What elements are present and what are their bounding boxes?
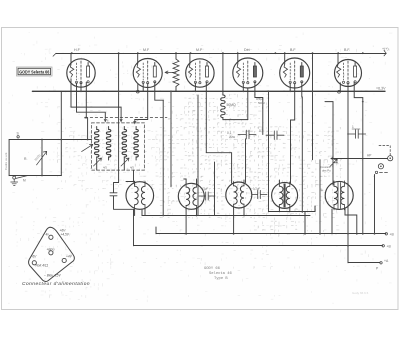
svg-text:0,5: 0,5	[259, 129, 264, 133]
wire: TR4 tops	[279, 180, 289, 183]
tube V5 pin 3	[301, 81, 303, 83]
dashed jack link	[379, 146, 390, 156]
svg-text:500V: 500V	[258, 101, 265, 105]
tube V4 pin 3	[254, 81, 256, 83]
terminal -B	[382, 245, 384, 247]
svg-text:HP: HP	[367, 154, 371, 158]
wire: V6 plate step right	[354, 82, 363, 234]
wire: long vertical x=198	[197, 95, 199, 216]
svg-text:4/5: 4/5	[130, 166, 134, 170]
connector pin 2	[49, 251, 53, 255]
svg-text:4µ: 4µ	[320, 188, 324, 192]
vacuum tube V5 envelope	[280, 58, 310, 88]
svg-text:M.F: M.F	[143, 48, 150, 52]
connector pin 4	[32, 261, 36, 265]
connector labels	[31, 229, 73, 278]
svg-text:H.F: H.F	[74, 48, 81, 52]
node: bus junction x=222.9	[222, 52, 224, 54]
wire: TR5 bottom center	[345, 209, 357, 234]
wire: V3 pin to chassis	[194, 83, 196, 92]
tube V3 grid lead from bus	[189, 53, 191, 64]
wire: V1 pin to AVC step	[77, 83, 106, 119]
svg-text:B.F.: B.F.	[344, 48, 350, 52]
tube V2 pin 3	[154, 81, 156, 83]
wire: pot leg vertical	[41, 140, 43, 176]
node: bus junction x=338.2	[337, 52, 339, 54]
svg-text:+4V: +4V	[66, 255, 73, 259]
wire: long vertical x=171	[170, 91, 172, 187]
tube V1 heater dashed line	[76, 63, 78, 80]
svg-text:Noir 4/11: Noir 4/11	[36, 263, 49, 267]
wire: V6 pin to chassis junction	[339, 83, 341, 92]
IF transformer TR2 can	[178, 183, 204, 209]
tube V1 plate top lead	[87, 63, 89, 67]
svg-text:R.: R.	[24, 157, 27, 161]
wire: V2 cathode down to coil box	[135, 84, 148, 122]
TR2 secondary winding	[193, 187, 197, 205]
wire: vertical x=268.5	[268, 91, 270, 212]
svg-text:Gody 66 6 6: Gody 66 6 6	[352, 291, 369, 295]
TR5 secondary winding	[341, 186, 345, 204]
tube V2 grid zigzag	[136, 64, 140, 77]
jack J2	[378, 164, 383, 169]
tube V2 pin 2	[147, 82, 149, 84]
wire: TR2 tops	[184, 179, 197, 184]
wire: TR2 bottoms	[186, 209, 196, 234]
wire: V4 pin to chassis	[242, 83, 244, 92]
wire: TR3 bottoms	[234, 208, 244, 234]
node: bus junction x=137.8	[137, 52, 139, 54]
vacuum tube V2 envelope	[133, 59, 162, 88]
wire: vertical x=320	[319, 160, 321, 234]
resistor R1 (AVC, between bus and chassis)	[175, 53, 177, 59]
tube V5 grid lead from bus	[284, 53, 286, 64]
wire: long vertical x=118.6 bus to padder	[118, 53, 120, 182]
capacitor C1 0,1µF	[238, 130, 256, 139]
tube V4 pin 2	[247, 82, 249, 84]
tube V1 grid zigzag	[70, 64, 74, 77]
tube V6 pin 2	[347, 82, 349, 84]
vacuum tube V6 envelope	[335, 60, 362, 87]
tube V5 anode plate	[300, 66, 303, 77]
node: bus left end tick	[53, 53, 56, 56]
TR1 primary leads	[134, 181, 136, 210]
svg-text:Cadre ou ant.: Cadre ou ant.	[4, 152, 8, 170]
tube V2 cathode dashed line	[147, 61, 149, 82]
svg-text:4/5: 4/5	[103, 166, 107, 170]
svg-text:Connecteur d'alimentation: Connecteur d'alimentation	[22, 281, 90, 287]
tube V4 pin 1	[242, 81, 244, 83]
tube V6 cathode dashed line	[347, 61, 349, 82]
svg-text:+4,5V: +4,5V	[61, 233, 70, 237]
svg-text:M.F: M.F	[196, 48, 203, 52]
TR1 secondary winding	[141, 186, 145, 204]
node: coil terminal arrow 3	[120, 119, 123, 122]
svg-text:GODY 66: GODY 66	[204, 267, 221, 271]
tube V5 pin 1	[289, 81, 291, 83]
node: bus junction x=284.7	[284, 52, 286, 54]
TR2 primary winding	[186, 187, 190, 205]
tube V5 plate top lead	[301, 63, 303, 67]
IF transformer TR5 can	[325, 181, 353, 209]
wire: P line	[348, 262, 380, 264]
wire: long vertical x=61	[60, 91, 62, 175]
svg-text:1: 1	[352, 125, 354, 129]
resistor R1 wiper arrow to V2 plate	[165, 71, 176, 74]
svg-text:+A: +A	[384, 259, 389, 263]
wire: rail y=215.5	[142, 215, 310, 217]
TR5 core lines	[338, 183, 341, 209]
svg-text:M: M	[23, 179, 26, 183]
wire: V3 plate down-step to IF2	[206, 82, 231, 183]
tube V2 anode plate	[153, 66, 156, 77]
tube V4 anode plate	[253, 66, 256, 77]
wire: TR2 area vertical	[214, 162, 216, 216]
vacuum tube V1 envelope	[67, 59, 95, 87]
tube V6 grid lead from bus	[337, 53, 339, 64]
IF transformer TR1 can	[126, 182, 154, 210]
tube V2 pin 1	[142, 81, 144, 83]
TR5 secondary leads	[343, 181, 345, 210]
svg-text:P: P	[137, 119, 139, 123]
wire: tube6 left step	[325, 102, 333, 185]
svg-text:4/2µF: 4/2µF	[201, 187, 208, 191]
tube V3 pin 3	[206, 81, 208, 83]
tube V1 pin 1	[75, 81, 77, 83]
TR5 primary leads	[333, 181, 335, 210]
svg-text:des Pu: des Pu	[322, 169, 331, 173]
node: coil terminal arrow	[104, 119, 107, 122]
wire: left down leg	[8, 140, 10, 176]
wire: osc coil to mixer	[133, 170, 135, 181]
tube V6 heater dashed line	[343, 63, 345, 80]
wire: antenna line	[9, 139, 91, 141]
wire: V6 cathode long down	[347, 84, 349, 263]
connector pin 1	[49, 235, 53, 239]
tube V3 pin 1	[194, 81, 196, 83]
capacitor C6	[199, 192, 215, 200]
tube V5 cathode dashed line	[294, 61, 296, 82]
wire: TR1 top	[126, 182, 135, 186]
node: bus junction x=118.6	[118, 52, 120, 54]
resistor R2 50M grid leak	[222, 53, 224, 95]
title block text	[204, 267, 233, 281]
wire: jack drop	[374, 175, 376, 234]
vacuum tube V3 envelope	[186, 59, 214, 87]
wire: V1 plate drop to gang line	[85, 82, 87, 117]
svg-text:1/2µF: 1/2µF	[253, 187, 260, 191]
tube V6 plate top lead	[354, 63, 356, 67]
coil L3	[122, 129, 126, 157]
wire: V1 grid line continues below	[71, 79, 121, 119]
coil assembly dashed box	[92, 123, 145, 170]
potentiometer 2 arrow	[82, 144, 93, 151]
node: bus junction x=312.5	[312, 52, 314, 54]
tube V3 pin 2	[199, 82, 201, 84]
TR4 core bar	[284, 184, 286, 208]
coil L2	[106, 129, 110, 157]
jack J1	[388, 156, 393, 161]
tube V4 grid lead from bus	[237, 53, 239, 64]
wire: coil box bottoms	[97, 160, 125, 170]
wire: vertical x=312.5 bus to volume line	[312, 53, 314, 160]
wire: +B rail	[156, 233, 386, 235]
TR4 primary winding	[279, 186, 283, 204]
paper texture	[8, 33, 396, 304]
potentiometer R 50000 arrow	[37, 151, 47, 165]
TR3 secondary leads	[243, 182, 245, 209]
tube V1 pin 2	[80, 82, 82, 84]
wire: C1 to TR3 vertical	[245, 139, 247, 183]
vacuum tube V4 envelope	[233, 58, 263, 88]
tube V6 grid zigzag	[337, 64, 341, 77]
wire: V4 grid return	[247, 88, 249, 120]
tube V4 heater dashed line	[242, 63, 244, 80]
wire: HT supply top bus	[56, 53, 386, 55]
wire: V5 pin to chassis	[289, 83, 291, 92]
TR2 secondary leads	[196, 183, 198, 210]
wire: V5 cathode down	[291, 84, 295, 184]
power connector outline	[29, 227, 75, 281]
svg-text:+(+): +(+)	[382, 47, 389, 51]
TR3 secondary winding	[240, 186, 244, 204]
TR3 primary leads	[233, 182, 235, 209]
capacitor C2 0,5µF	[266, 131, 284, 140]
TR1 primary winding	[135, 186, 139, 204]
tube V4 plate top lead	[254, 63, 256, 67]
node: coil terminal arrow 2	[133, 121, 136, 124]
terminal S (antenna)	[17, 136, 19, 138]
svg-text:=6,3V: =6,3V	[376, 87, 386, 91]
tube V1 cathode dashed line	[80, 61, 82, 82]
svg-text:Selecta 46: Selecta 46	[209, 271, 233, 276]
wire: TR3 tops	[234, 180, 244, 184]
tube V6 anode plate	[354, 66, 357, 77]
wire: output transformer left drop	[331, 209, 333, 234]
wire: rail riser	[142, 210, 156, 234]
svg-text:4v: 4v	[46, 232, 50, 236]
IF transformer TR3 can	[226, 182, 252, 208]
tube V5 heater dashed line	[289, 63, 291, 80]
svg-text:− Bleu 4,5V: − Bleu 4,5V	[44, 274, 61, 278]
capacitor C4 1/2µF	[252, 190, 267, 198]
tube V3 cathode dashed line	[199, 61, 201, 82]
node: bus junction x=190.6	[190, 52, 192, 54]
svg-text:+B(+): +B(+)	[47, 248, 55, 252]
tube V2 heater dashed line	[142, 63, 144, 80]
volume control arrow	[330, 159, 338, 167]
svg-text:Dét: Dét	[244, 48, 250, 52]
label box: GODY Selecta 66	[17, 67, 53, 76]
wire: long vertical x=163	[162, 100, 164, 215]
svg-text:GODY Selecta 66: GODY Selecta 66	[19, 69, 50, 74]
TR5 primary winding	[334, 186, 338, 204]
TR4 secondary winding	[286, 186, 290, 204]
tube V3 anode plate	[206, 66, 209, 77]
svg-text:B.F: B.F	[290, 48, 296, 52]
wire: 50M to grid horizontal	[223, 119, 248, 121]
IF transformer TR4 can	[272, 182, 298, 208]
tube V1 grid lead from bus	[70, 53, 72, 64]
TR2 primary leads	[185, 183, 187, 210]
wire: V1 pin to chassis	[80, 83, 82, 92]
wire: coil feed vertical	[87, 118, 89, 140]
wire: output line to HP	[331, 158, 388, 160]
coil L4	[134, 129, 138, 157]
trimmer arrow 1	[94, 158, 102, 166]
tube V5 pin 2	[294, 82, 296, 84]
wire: V2 plate step right	[155, 82, 163, 100]
wire: cathode/heater return line	[32, 90, 385, 92]
connector pin 3	[62, 258, 66, 262]
tube V3 heater dashed line	[194, 63, 196, 80]
tube V3 plate top lead	[206, 63, 208, 67]
node: bus junction x=362.8	[362, 52, 364, 54]
wire: V5 plate down	[301, 82, 304, 212]
wire: bottom leg	[9, 175, 61, 177]
node: bus junction x=275.4	[275, 52, 277, 54]
ground symbol	[11, 179, 18, 185]
terminal +B	[385, 233, 387, 235]
tube V2 plate top lead	[154, 63, 156, 67]
wire: TR1 bottom to -B rail	[134, 209, 135, 246]
tube V2 grid lead from bus	[137, 53, 139, 64]
wire: V2 pin to chassis	[138, 83, 143, 92]
tube V6 pin 3	[354, 81, 356, 83]
tube V3 grid zigzag	[188, 64, 192, 77]
coil L1	[94, 129, 98, 157]
tube V4 cathode dashed line	[247, 61, 249, 82]
TR1 secondary leads	[144, 181, 146, 210]
svg-text:50MΩ: 50MΩ	[227, 103, 237, 107]
capacitor C3 1µF	[348, 130, 366, 139]
wire: -B rail	[134, 245, 383, 247]
wire: TR4 bottom rail	[269, 206, 316, 234]
node: bus junction x=71.8	[71, 52, 73, 54]
svg-text:−6V: −6V	[31, 255, 38, 259]
svg-text:2MΩ: 2MΩ	[229, 135, 235, 139]
wire: TR4 bottoms	[279, 208, 289, 211]
TR4 primary leads	[278, 182, 280, 209]
switch M	[13, 176, 16, 179]
tube V1 pin 3	[87, 81, 89, 83]
svg-text:+B: +B	[390, 233, 395, 237]
mechanical gang dashed link	[85, 117, 167, 119]
capacitor C5 padder (left of TR1)	[110, 183, 134, 210]
svg-text:+B: +B	[387, 245, 392, 249]
TR4 secondary leads	[289, 182, 291, 209]
tube V6 pin 1	[342, 81, 344, 83]
tube V4 grid zigzag	[236, 64, 240, 77]
tube V5 grid zigzag	[283, 64, 287, 77]
node: bus junction x=176	[175, 52, 177, 54]
node: bus right terminal +A	[384, 51, 386, 56]
TR3 primary winding	[234, 186, 238, 204]
node: bus junction x=237.7	[237, 52, 239, 54]
trimmer arrow 2	[121, 158, 129, 166]
terminal P	[380, 262, 382, 264]
tube V1 anode plate	[87, 66, 90, 77]
svg-text:Type B: Type B	[214, 277, 228, 281]
wire: V4 plate step	[255, 82, 263, 135]
terminal small	[375, 171, 377, 173]
wire: TR1 right bottom	[144, 210, 146, 216]
